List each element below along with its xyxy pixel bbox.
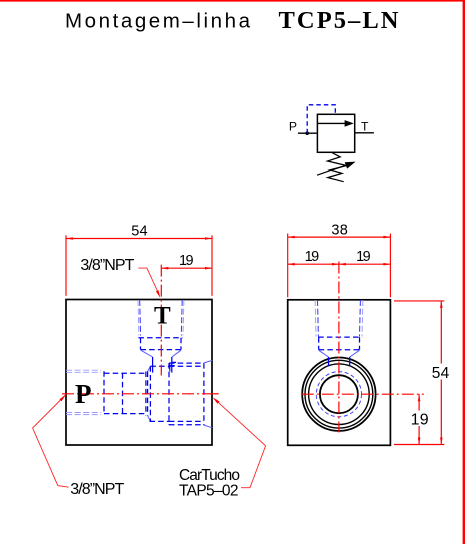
- P port line: [298, 132, 318, 134]
- svg-text:19: 19: [179, 253, 194, 269]
- svg-text:38: 38: [331, 223, 347, 239]
- hidden lines: T port side view: [315, 300, 363, 366]
- svg-text:54: 54: [432, 365, 450, 382]
- svg-text:TCP5–LN: TCP5–LN: [279, 7, 399, 34]
- svg-text:3/8”NPT: 3/8”NPT: [70, 481, 124, 498]
- leader 3/8"NPT top: [80, 257, 160, 298]
- face chamfers: [204, 360, 212, 363]
- svg-text:54: 54: [131, 223, 147, 239]
- T counterbore: [138, 337, 182, 339]
- red centerlines side view: [302, 262, 424, 433]
- dimension 19/19 (side view): [288, 249, 391, 265]
- svg-text:19: 19: [356, 249, 371, 265]
- vertical centerline: [338, 262, 340, 433]
- spring: [328, 153, 347, 182]
- hidden lines: cartridge cavity front view: [150, 360, 213, 428]
- flow arrow inside box: [317, 122, 346, 124]
- dimension 19 (side view right): [411, 394, 429, 444]
- P axis centerline: [62, 393, 214, 395]
- svg-text:P: P: [289, 119, 297, 133]
- T axis centerline: [160, 265, 162, 376]
- block outline: [288, 300, 391, 446]
- frame top border: [0, 0, 465, 2]
- svg-text:Montagem–linha: Montagem–linha: [65, 10, 251, 33]
- dimension 54 (front view top): [66, 223, 212, 295]
- svg-text:19: 19: [305, 249, 320, 265]
- P step: [103, 371, 105, 414]
- chamfers to cavity: [148, 366, 151, 371]
- P bore end double: [145, 372, 147, 416]
- pilot dashed line: [307, 105, 335, 133]
- hidden lines: P port front view: [66, 366, 150, 421]
- svg-text:CarTucho: CarTucho: [179, 467, 240, 484]
- red centerlines front view: [62, 265, 219, 394]
- junction dot: [305, 131, 309, 135]
- leader CarTucho TAP5-02: [179, 397, 266, 499]
- T bore to cavity: [152, 357, 154, 373]
- T thread lines: [137, 300, 140, 336]
- svg-text:P: P: [75, 379, 92, 409]
- cavity bore section: [150, 365, 169, 367]
- dimension 38 (side view top): [288, 223, 391, 298]
- T port line: [355, 132, 374, 134]
- svg-text:T: T: [361, 119, 369, 133]
- svg-text:3/8”NPT: 3/8”NPT: [80, 257, 134, 274]
- T taper funnel: [141, 350, 153, 357]
- block outline: [66, 300, 212, 446]
- dimension 54 (side view right): [394, 301, 450, 445]
- svg-text:TAP5–02: TAP5–02: [179, 483, 239, 500]
- thread circle (hidden): [316, 372, 361, 417]
- cavity thread section: [169, 362, 204, 364]
- valve body box U1: [317, 114, 354, 152]
- svg-text:19: 19: [411, 411, 429, 428]
- P thread lines: [66, 369, 101, 371]
- frame right border: [463, 0, 465, 544]
- leader 3/8"NPT bottom: [33, 395, 125, 498]
- dimension 19 (front view): [161, 253, 212, 270]
- svg-text:T: T: [154, 303, 171, 330]
- horizontal centerline: [302, 393, 424, 395]
- cartridge cavity circles: [302, 358, 375, 431]
- hidden lines: T port front view: [138, 300, 184, 373]
- adjustment arrow: [317, 164, 348, 175]
- P bore: [104, 372, 146, 374]
